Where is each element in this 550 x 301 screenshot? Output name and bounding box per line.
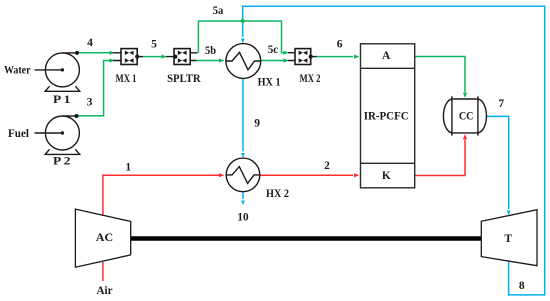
arrow green into SPLTR [162,55,167,59]
wire A-out (green, IR-PCFC A to CC) [415,57,465,93]
svg-text:10: 10 [237,212,248,224]
mixer MX2 [288,49,317,65]
wire 1 (red, AC to HX2) [103,175,219,216]
svg-text:1: 1 [125,162,131,174]
fuel cell IR-PCFC block [361,44,415,188]
wire air inlet (red) [102,262,104,281]
svg-text:K: K [382,170,391,182]
arrow red into HX2 [219,173,224,177]
arrow cyan outlet 10 [241,201,245,206]
svg-text:MX 1: MX 1 [116,73,137,85]
junction dot on wire 5a at cyan crossing [241,19,245,23]
svg-text:9: 9 [254,118,260,130]
mixer MX1 [113,49,143,65]
svg-text:CC: CC [459,111,474,123]
svg-text:P 2: P 2 [53,155,71,167]
svg-text:AC: AC [96,232,113,244]
arrow red into CC bottom [463,134,467,140]
heat exchanger HX2 [226,158,260,192]
svg-text:Air: Air [97,285,113,297]
svg-text:5a: 5a [213,5,224,17]
svg-text:HX 1: HX 1 [258,77,281,89]
wire 7 (cyan, CC to turbine) [487,116,509,209]
svg-text:IR-PCFC: IR-PCFC [364,111,409,123]
wire 4 (green, P1 to MX1) [77,52,110,54]
svg-text:HX 2: HX 2 [266,188,289,200]
wire 5 (green, MX1 to SPLTR) [143,56,162,58]
shaft (AC to T) [131,236,482,240]
svg-text:6: 6 [337,38,343,50]
wire 9 (cyan, HX1 to HX2) [242,78,244,151]
arrow green into HX1 [219,58,224,62]
arrow cyan into HX1 top [241,39,245,44]
svg-text:7: 7 [498,98,504,110]
arrow cyan into turbine top [507,211,511,216]
svg-text:SPLTR: SPLTR [167,73,201,85]
svg-text:MX 2: MX 2 [300,73,321,85]
svg-text:2: 2 [324,160,330,172]
arrow green into MX1 top port [110,51,115,55]
wire K-out (red, IR-PCFC K to CC) [415,140,465,176]
svg-text:5c: 5c [268,44,279,56]
splitter SPLTR [166,49,198,65]
svg-text:Water: Water [4,65,31,77]
wire 6 (green, MX2 to IR-PCFC A) [317,56,353,58]
arrow green into IR-PCFC A [354,55,359,59]
wire 5b (green, SPLTR to HX1) [196,60,219,62]
svg-text:3: 3 [87,97,93,109]
wire 2 (red, HX2 to IR-PCFC K) [260,174,353,176]
arrow green into MX2 top port [284,51,289,55]
heat exchanger HX1 [226,44,261,79]
arrow green into MX1 bottom port [110,58,115,62]
wire 3 (green, P2 to MX1) [77,61,111,116]
pump P1 [35,53,80,91]
arrow green into MX2 bottom port [284,58,289,62]
svg-text:5: 5 [151,39,157,51]
arrow green into CC top [463,93,467,99]
svg-text:8: 8 [519,280,525,292]
svg-text:T: T [504,233,512,245]
svg-text:5b: 5b [205,45,216,57]
wire 8 (cyan, turbine exhaust loop to HX1) [243,6,545,295]
svg-text:4: 4 [87,37,93,49]
compressor AC [75,209,130,267]
wire 5a (green, SPLTR top to MX2 top) [198,21,284,53]
svg-text:A: A [382,50,391,62]
wire 10 (cyan, HX2 outlet) [242,192,244,199]
combustor CC [443,96,486,135]
svg-text:P 1: P 1 [53,94,71,106]
turbine T [481,210,537,266]
wire 5c (green, HX1 to MX2) [261,60,284,62]
pump P2 [35,116,80,154]
arrow red into IR-PCFC K [354,173,359,177]
svg-text:Fuel: Fuel [8,128,29,140]
arrow cyan into HX2 top [241,153,245,158]
